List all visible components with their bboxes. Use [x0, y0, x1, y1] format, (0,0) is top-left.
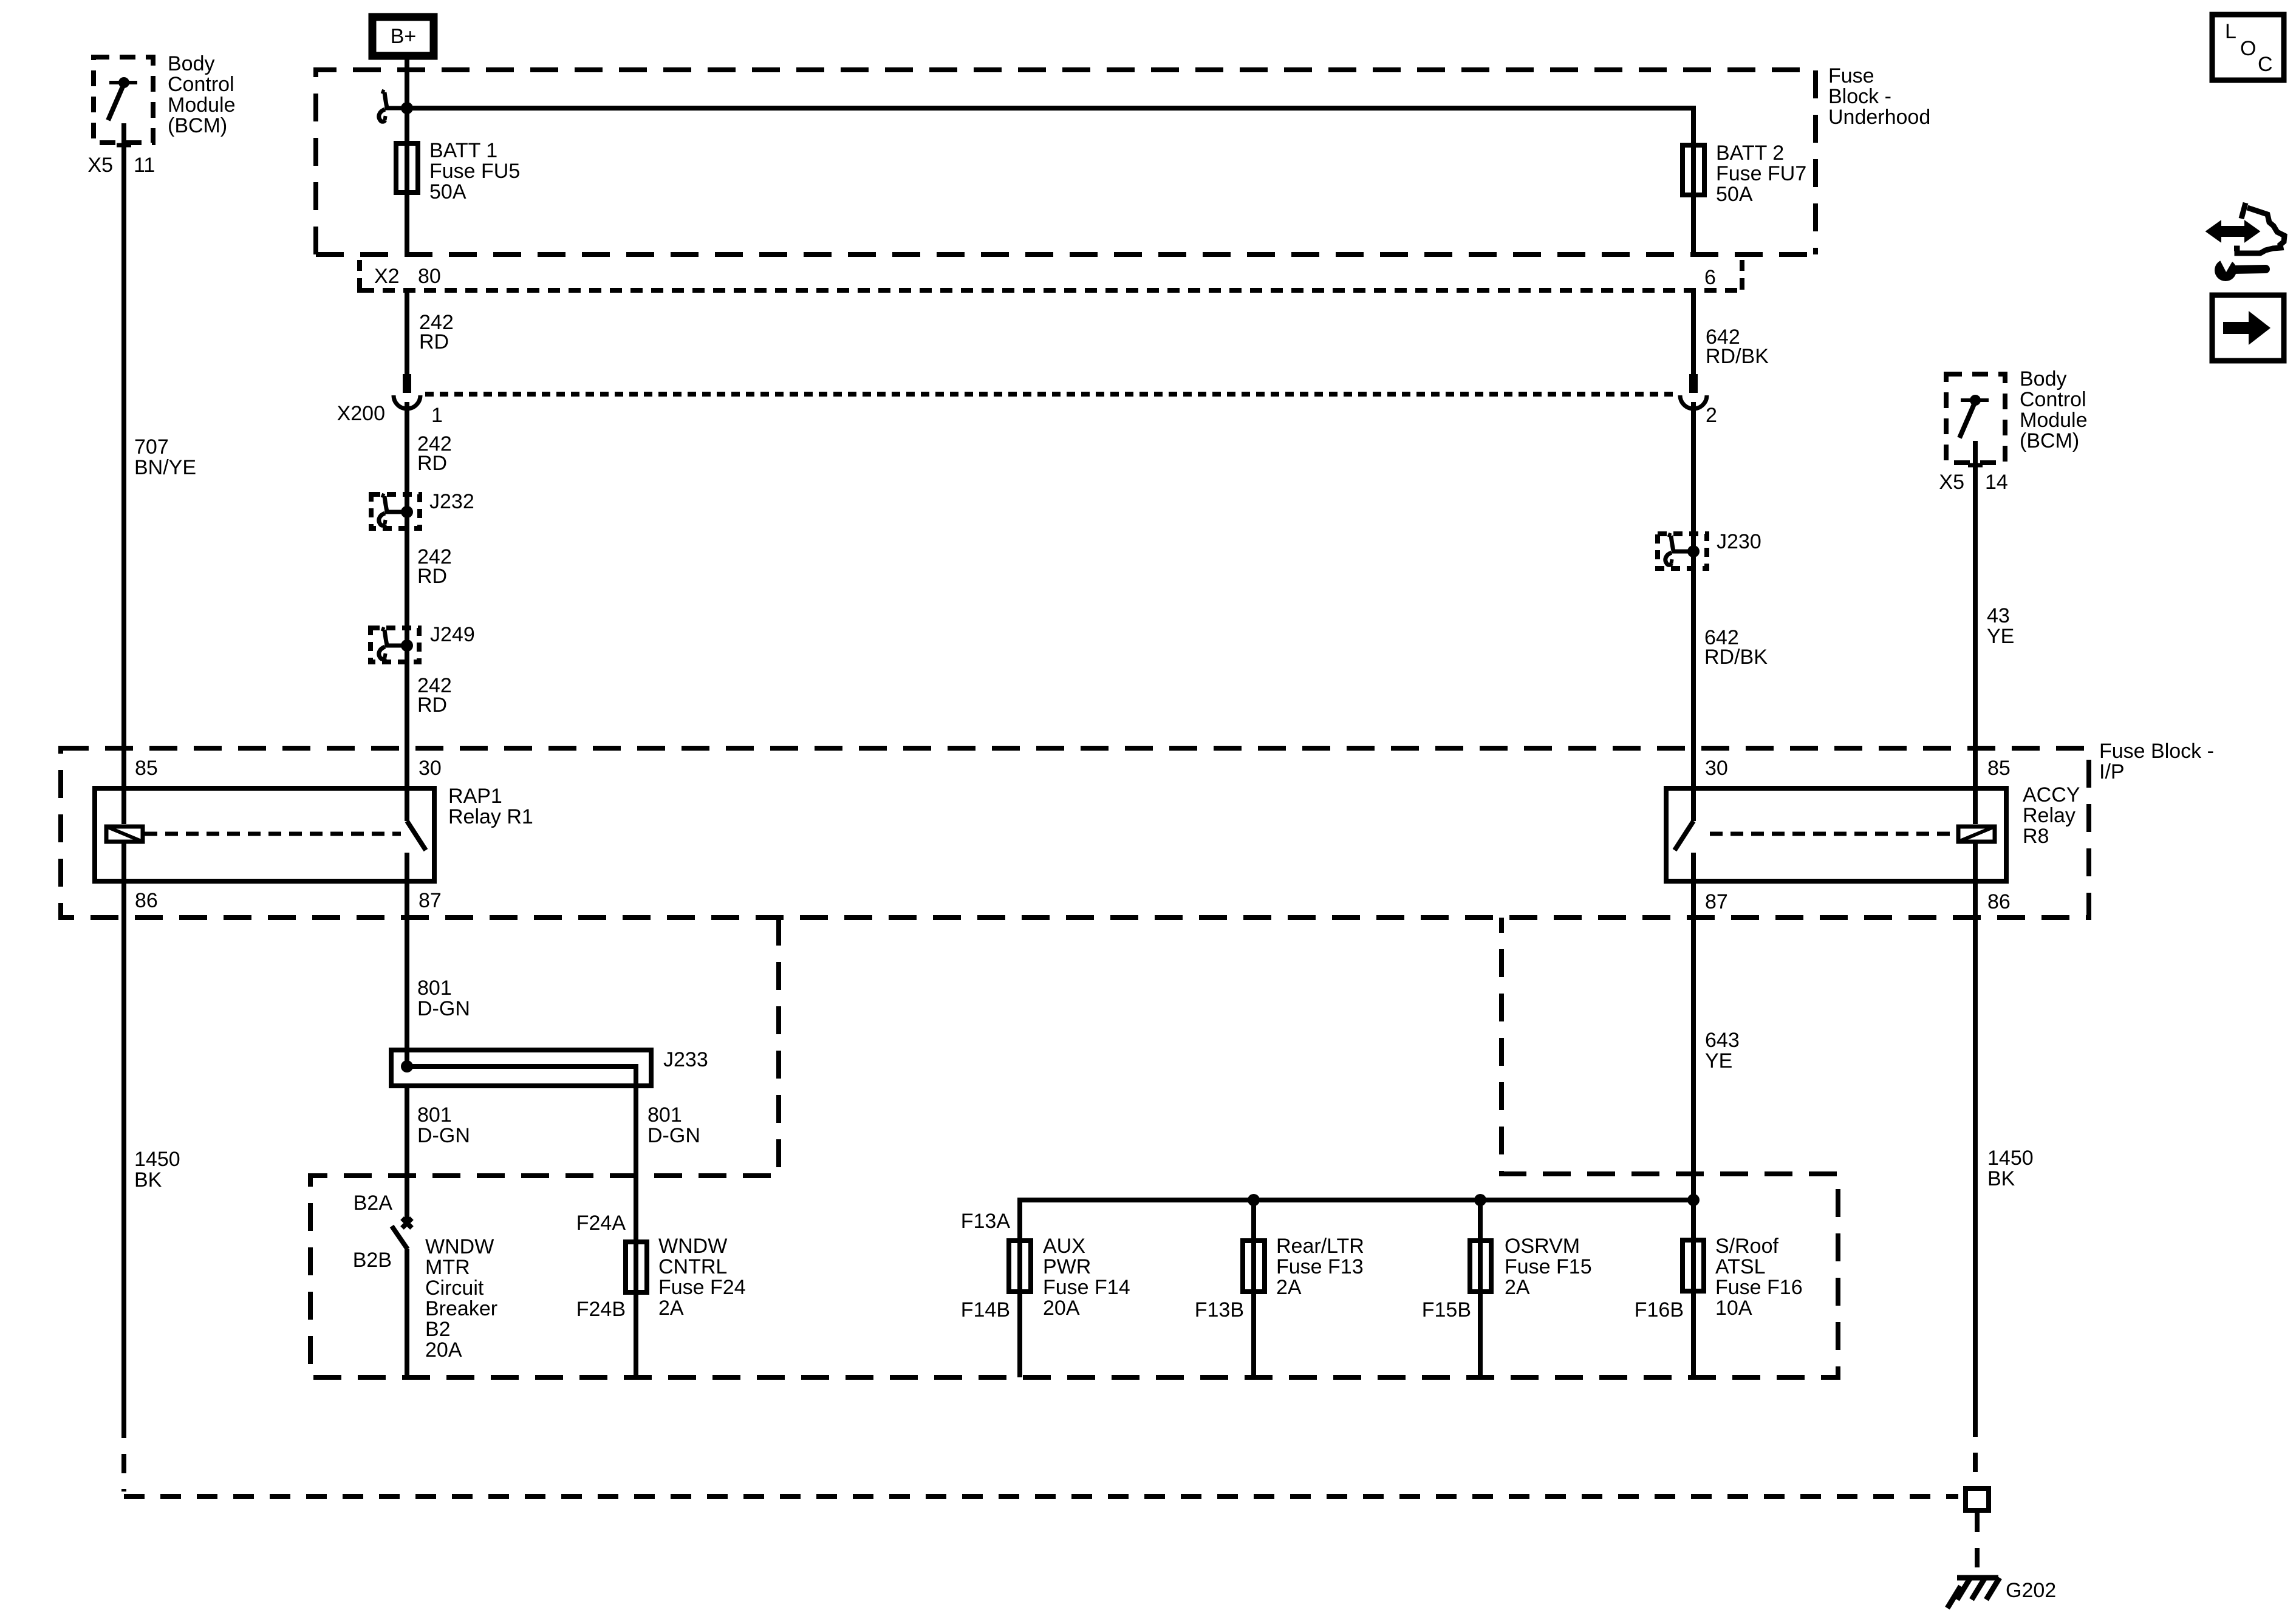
fuse F14	[1009, 1241, 1031, 1377]
wire 642 RD/BK J230 to relay R8 pin 30	[1691, 551, 1696, 786]
svg-text:PWR: PWR	[1043, 1255, 1091, 1278]
label pin 87 R1	[419, 889, 442, 912]
label Body Control Module (BCM) right	[2020, 367, 2088, 452]
svg-text:RD: RD	[417, 694, 447, 717]
wire 43 YE BCM right to relay R8 pin 85	[1973, 441, 1978, 786]
fuse bus wire	[1020, 1200, 1693, 1294]
fuse F16	[1683, 1200, 1704, 1377]
svg-text:Rear/LTR: Rear/LTR	[1276, 1235, 1364, 1258]
svg-text:YE: YE	[1705, 1049, 1732, 1072]
label F15B	[1422, 1298, 1471, 1321]
switch contact inside BCM left	[108, 77, 137, 120]
svg-text:Control: Control	[2020, 388, 2086, 411]
svg-text:Fuse F14: Fuse F14	[1043, 1276, 1130, 1299]
svg-text:1450: 1450	[1987, 1147, 2034, 1170]
label X5 14 right	[1939, 471, 2007, 494]
svg-text:86: 86	[1987, 890, 2011, 913]
wire 242 RD J249 to relay R1 pin 30	[405, 646, 409, 786]
label BATT 2 Fuse FU7 50A	[1716, 141, 1806, 206]
label 242 RD segment 3	[417, 545, 452, 588]
svg-text:10A: 10A	[1715, 1297, 1752, 1320]
svg-text:B2: B2	[425, 1318, 451, 1341]
wire B+ to junction	[405, 60, 409, 108]
svg-text:BATT 1: BATT 1	[429, 139, 497, 162]
wrench icon	[2215, 254, 2266, 281]
label WNDW CNTRL Fuse F24 2A	[658, 1235, 746, 1320]
svg-text:Control: Control	[168, 73, 234, 96]
svg-text:Fuse F15: Fuse F15	[1505, 1255, 1592, 1278]
svg-text:2A: 2A	[658, 1297, 684, 1320]
svg-text:J230: J230	[1717, 530, 1761, 553]
svg-text:Fuse F24: Fuse F24	[658, 1276, 746, 1299]
svg-text:X2: X2	[374, 265, 400, 288]
label 643 YE	[1705, 1029, 1740, 1072]
svg-text:D-GN: D-GN	[417, 1124, 470, 1147]
component location icon car outline	[2234, 203, 2284, 253]
ground run dashed wire right 1450 BK	[1973, 1417, 1978, 1486]
svg-text:86: 86	[135, 889, 158, 912]
battery hook symbol at B+ node	[379, 91, 403, 121]
connector X200 pin 1	[394, 374, 420, 409]
circuit breaker B2	[392, 1218, 412, 1377]
svg-text:Body: Body	[168, 52, 215, 75]
label Fuse Block - Underhood	[1828, 64, 1930, 129]
connector X200 pin 2	[1680, 374, 1707, 409]
wire 801 D-GN relay R1 pin 87 to J233	[405, 884, 409, 1066]
svg-text:F14B: F14B	[961, 1298, 1010, 1321]
label Fuse Block - I/P	[2099, 740, 2214, 783]
label F14B	[961, 1298, 1010, 1321]
relay R8 internal dashed link	[1710, 832, 1956, 836]
svg-text:F13B: F13B	[1195, 1298, 1244, 1321]
wire 801 D-GN J233 right leg to F24	[634, 1088, 638, 1295]
svg-text:Circuit: Circuit	[425, 1277, 484, 1300]
fuse FU7	[1683, 143, 1704, 197]
relay R8 coil	[1958, 786, 1995, 884]
label pin 30 R8	[1705, 757, 1728, 780]
svg-text:ACCY: ACCY	[2023, 783, 2080, 806]
svg-text:L: L	[2225, 20, 2236, 43]
body control module BCM right dashed box	[1946, 374, 2005, 463]
svg-text:RD: RD	[419, 330, 449, 353]
svg-text:Body: Body	[2020, 367, 2067, 390]
svg-text:43: 43	[1987, 604, 2010, 627]
label X200 and pin 1	[337, 402, 443, 427]
svg-text:801: 801	[417, 977, 452, 1000]
label F24B	[576, 1298, 626, 1321]
svg-text:1450: 1450	[134, 1148, 180, 1171]
svg-text:Fuse FU5: Fuse FU5	[429, 160, 520, 183]
relay R1 switch contact	[407, 786, 426, 884]
label J233	[663, 1048, 708, 1071]
fuse FU5	[396, 141, 418, 195]
fuse F13	[1243, 1241, 1265, 1377]
ground symbol G202	[1947, 1578, 2000, 1608]
junction node bus at F16	[1687, 1194, 1700, 1206]
wire 643 YE relay R8 pin 87 to fuse bus	[1691, 884, 1696, 1200]
pin tick BCM left X5 11	[117, 143, 131, 148]
svg-text:Relay: Relay	[2023, 804, 2076, 827]
label pin 86 R8	[1987, 890, 2011, 913]
svg-text:F15B: F15B	[1422, 1298, 1471, 1321]
label OSRVM Fuse F15 2A	[1505, 1235, 1592, 1299]
svg-text:30: 30	[419, 757, 442, 780]
svg-text:CNTRL: CNTRL	[658, 1255, 727, 1278]
wire 242 RD J232 to J249	[405, 512, 409, 646]
wire 801 D-GN J233 left leg to B2	[405, 1088, 409, 1219]
splice J232	[371, 494, 420, 528]
svg-text:B2A: B2A	[354, 1192, 393, 1215]
label 801 D-GN segment 3	[647, 1103, 700, 1147]
label 242 RD segment 4	[417, 674, 452, 717]
svg-text:D-GN: D-GN	[417, 997, 470, 1020]
svg-text:C: C	[2258, 53, 2273, 76]
svg-text:85: 85	[1987, 757, 2011, 780]
wire 707 BN/YE BCM left to relay R1 pin 85	[121, 123, 126, 786]
svg-text:RAP1: RAP1	[448, 785, 502, 808]
label RAP1 Relay R1	[448, 785, 533, 828]
svg-text:WNDW: WNDW	[658, 1235, 727, 1258]
label J232	[429, 490, 474, 513]
LOC legend box	[2212, 15, 2284, 80]
svg-text:50A: 50A	[429, 180, 466, 203]
label 43 YE	[1987, 604, 2014, 648]
svg-text:X5: X5	[87, 154, 113, 177]
svg-text:BN/YE: BN/YE	[134, 456, 196, 479]
svg-text:2A: 2A	[1276, 1276, 1302, 1299]
svg-text:BK: BK	[134, 1168, 162, 1192]
label WNDW MTR Circuit Breaker B2 20A	[425, 1235, 497, 1362]
svg-text:2: 2	[1706, 404, 1717, 427]
forward arrow legend box	[2212, 295, 2284, 361]
svg-text:Relay R1: Relay R1	[448, 805, 533, 828]
svg-text:(BCM): (BCM)	[168, 114, 227, 137]
svg-text:20A: 20A	[425, 1338, 462, 1362]
svg-text:YE: YE	[1987, 625, 2014, 648]
connector X2 strip	[360, 260, 1742, 293]
wire 642 RD/BK X200 to J230	[1691, 402, 1696, 551]
svg-text:643: 643	[1705, 1029, 1740, 1052]
connector X200 dotted separator line	[425, 392, 1678, 397]
label pin 2	[1706, 404, 1717, 427]
svg-text:20A: 20A	[1043, 1297, 1080, 1320]
svg-text:30: 30	[1705, 757, 1728, 780]
svg-text:Module: Module	[2020, 409, 2088, 432]
svg-text:RD: RD	[417, 452, 447, 475]
svg-text:S/Roof: S/Roof	[1715, 1235, 1778, 1258]
body control module BCM left dashed box	[94, 57, 153, 143]
svg-text:707: 707	[134, 435, 169, 459]
svg-text:BK: BK	[1987, 1167, 2015, 1190]
label 801 D-GN segment 2	[417, 1103, 470, 1147]
wire junction to FU5	[405, 108, 409, 141]
relay R8 switch contact	[1675, 786, 1693, 884]
svg-text:I/P: I/P	[2099, 760, 2125, 783]
wire horizontal B+ feed to FU7	[407, 108, 1693, 143]
svg-text:J233: J233	[663, 1048, 708, 1071]
label S/Roof ATSL Fuse F16 10A	[1715, 1235, 1803, 1320]
svg-text:F16B: F16B	[1635, 1298, 1684, 1321]
junction node bus at F13	[1248, 1194, 1260, 1206]
svg-text:Fuse FU7: Fuse FU7	[1716, 162, 1806, 185]
relay R1 internal dashed link	[145, 832, 401, 836]
svg-text:RD/BK: RD/BK	[1704, 646, 1768, 669]
relay R1 coil	[106, 786, 143, 884]
label pin 85 R8	[1987, 757, 2011, 780]
component location icon double arrow	[2207, 222, 2258, 240]
label pin 87 R8	[1705, 890, 1728, 913]
ground run dashed wire left 1450 BK	[124, 1419, 1958, 1496]
svg-text:MTR: MTR	[425, 1256, 470, 1279]
svg-text:B2B: B2B	[353, 1249, 392, 1272]
svg-text:G202: G202	[2006, 1579, 2056, 1602]
switch contact inside BCM right	[1959, 395, 1989, 438]
label J230	[1717, 530, 1761, 553]
label F24A	[576, 1212, 626, 1235]
svg-text:6: 6	[1704, 266, 1716, 289]
svg-text:80: 80	[418, 265, 441, 288]
label AUX PWR Fuse F14 20A	[1043, 1235, 1130, 1320]
svg-text:2A: 2A	[1505, 1276, 1530, 1299]
inline connector square node G202 feed	[1966, 1488, 1989, 1510]
label BATT 1 Fuse FU5 50A	[429, 139, 520, 203]
svg-text:Underhood: Underhood	[1828, 106, 1930, 129]
svg-text:87: 87	[419, 889, 442, 912]
label 1450 BK right	[1987, 1147, 2034, 1190]
wire FU7 to X2 pin 6	[1691, 197, 1696, 254]
svg-text:AUX: AUX	[1043, 1235, 1085, 1258]
splice J230	[1658, 534, 1707, 568]
label pin 86 R1	[135, 889, 158, 912]
label 242 RD segment 1	[419, 311, 454, 353]
svg-text:X5: X5	[1939, 471, 1964, 494]
label 242 RD segment 2	[417, 432, 452, 475]
dashed wire square to ground G202	[1975, 1513, 1980, 1575]
svg-text:ATSL: ATSL	[1715, 1255, 1766, 1278]
svg-text:X200: X200	[337, 402, 385, 425]
svg-text:Breaker: Breaker	[425, 1297, 497, 1320]
svg-text:Fuse F13: Fuse F13	[1276, 1255, 1364, 1278]
label X5 11 left	[87, 154, 155, 177]
relay R1 box	[95, 788, 434, 881]
label 642 RD/BK segment 1	[1706, 326, 1769, 368]
wire 242 RD X2 to X200	[405, 290, 409, 374]
label F13A	[961, 1210, 1011, 1233]
svg-text:801: 801	[647, 1103, 682, 1127]
label ACCY Relay R8	[2023, 783, 2080, 848]
svg-text:F24B: F24B	[576, 1298, 626, 1321]
label 642 RD/BK segment 2	[1704, 626, 1768, 669]
label J249	[430, 623, 475, 646]
svg-text:Fuse F16: Fuse F16	[1715, 1276, 1803, 1299]
label X2 80 6	[374, 265, 1716, 289]
svg-text:R8: R8	[2023, 825, 2049, 848]
splice block J233	[391, 1050, 651, 1088]
wire 242 RD X200 to J232	[405, 402, 409, 512]
label 707 BN/YE	[134, 435, 196, 479]
svg-text:BATT 2: BATT 2	[1716, 141, 1784, 165]
splice J249	[371, 628, 419, 662]
svg-text:14: 14	[1985, 471, 2008, 494]
svg-text:Fuse Block -: Fuse Block -	[2099, 740, 2214, 763]
fuse F15	[1470, 1241, 1491, 1377]
label B2A	[354, 1192, 393, 1215]
svg-text:F13A: F13A	[961, 1210, 1011, 1233]
svg-text:RD: RD	[417, 565, 447, 588]
label pin 30 R1	[419, 757, 442, 780]
label F13B	[1195, 1298, 1244, 1321]
label Body Control Module (BCM) left	[168, 52, 236, 137]
svg-text:87: 87	[1705, 890, 1728, 913]
wire 1450 BK right relay R8 pin 86 down	[1973, 884, 1978, 1417]
fuse block I/P dashed box	[61, 748, 2089, 918]
label F16B	[1635, 1298, 1684, 1321]
svg-text:Block -: Block -	[1828, 85, 1891, 108]
svg-text:11: 11	[134, 154, 155, 177]
svg-text:D-GN: D-GN	[647, 1124, 700, 1147]
svg-text:RD/BK: RD/BK	[1706, 345, 1769, 368]
lower dashed enclosure left lobe	[310, 918, 1838, 1377]
svg-text:(BCM): (BCM)	[2020, 429, 2079, 452]
svg-text:1: 1	[431, 404, 443, 427]
svg-text:J232: J232	[429, 490, 474, 513]
svg-text:50A: 50A	[1716, 183, 1753, 206]
fuse block underhood dashed box	[316, 70, 1816, 254]
wire 642 RD/BK X2 to X200 pin 2	[1691, 290, 1696, 374]
label 801 D-GN segment 1	[417, 977, 470, 1020]
svg-text:F24A: F24A	[576, 1212, 626, 1235]
junction node at B+	[401, 102, 413, 114]
power symbol B+	[372, 17, 434, 56]
svg-text:O: O	[2240, 37, 2256, 60]
svg-text:B+: B+	[391, 25, 417, 48]
svg-text:OSRVM: OSRVM	[1505, 1235, 1580, 1258]
label 1450 BK left	[134, 1148, 180, 1192]
svg-text:WNDW: WNDW	[425, 1235, 494, 1258]
label B2B	[353, 1249, 392, 1272]
svg-text:Fuse: Fuse	[1828, 64, 1874, 87]
pin tick BCM right X5 14	[1968, 463, 1983, 468]
label pin 85 R1	[135, 757, 158, 780]
svg-text:J249: J249	[430, 623, 475, 646]
relay R8 box	[1666, 788, 2006, 881]
wire FU5 to X2 pin 80	[405, 195, 409, 254]
label Rear/LTR Fuse F13 2A	[1276, 1235, 1364, 1299]
wire relay R1 pin 86 to 1450 BK left	[121, 884, 126, 1419]
junction node bus at F15	[1474, 1194, 1486, 1206]
svg-text:85: 85	[135, 757, 158, 780]
svg-text:Module: Module	[168, 94, 236, 117]
fuse F24	[626, 1242, 647, 1377]
label G202	[2006, 1579, 2056, 1602]
svg-text:801: 801	[417, 1103, 452, 1127]
